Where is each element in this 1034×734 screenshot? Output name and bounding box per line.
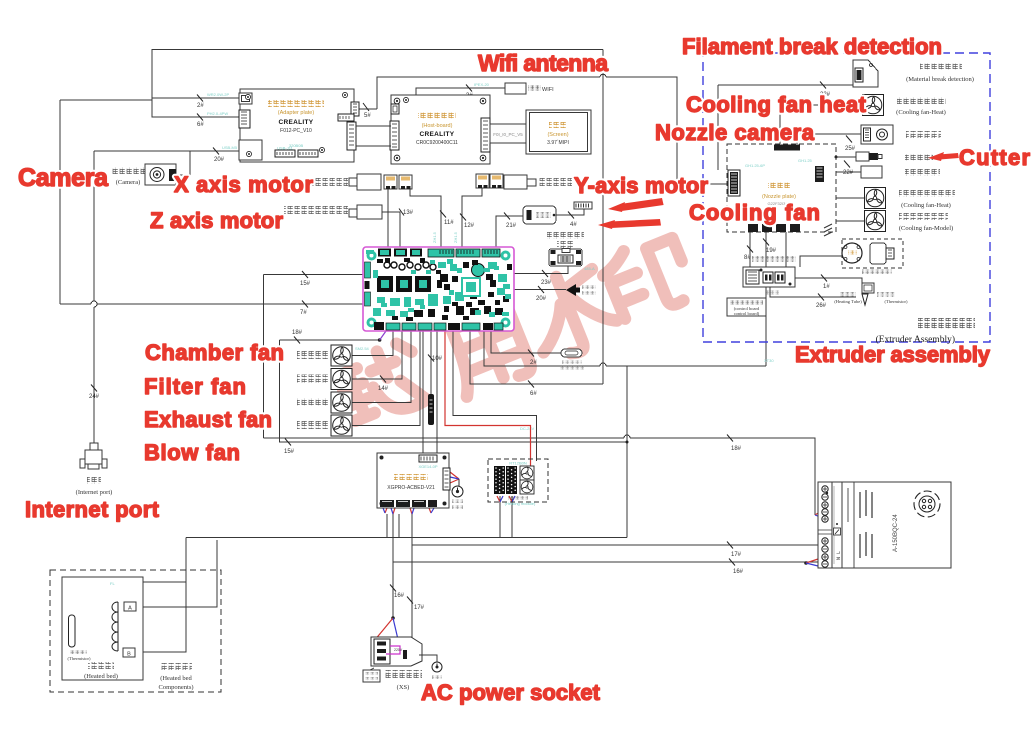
svg-text:ZH1.5: ZH1.5 (453, 231, 458, 243)
svg-text:USB-M5: USB-M5 (222, 145, 238, 150)
svg-text:GH1.25-6P: GH1.25-6P (745, 163, 765, 168)
svg-text:Blow fan: Blow fan (144, 440, 240, 465)
svg-text:X axis motor: X axis motor (174, 172, 313, 197)
svg-text:Z axis motor: Z axis motor (150, 208, 283, 233)
svg-text:A-150BQC-24: A-150BQC-24 (893, 514, 899, 552)
svg-text:Internet port: Internet port (25, 497, 160, 522)
svg-text:WR2.0W-2P: WR2.0W-2P (207, 92, 229, 97)
svg-text:(Thermistor): (Thermistor) (68, 656, 91, 661)
svg-text:Components): Components) (158, 684, 193, 691)
svg-text:22#: 22# (843, 170, 854, 176)
svg-text:N L: N L (836, 551, 842, 560)
svg-text:2#: 2# (530, 360, 537, 366)
svg-text:1#: 1# (823, 284, 830, 290)
svg-text:10#: 10# (432, 356, 443, 362)
svg-text:(XS): (XS) (397, 684, 410, 691)
svg-text:Y-axis motor: Y-axis motor (574, 173, 708, 198)
svg-text:CR0C9200400C11: CR0C9200400C11 (416, 140, 458, 146)
svg-text:control board): control board) (734, 311, 760, 316)
svg-text:(Host-board): (Host-board) (422, 123, 453, 129)
svg-text:(Cooling fan-Heat): (Cooling fan-Heat) (896, 109, 946, 116)
svg-text:18#: 18# (292, 330, 303, 336)
svg-text:AC power socket: AC power socket (421, 680, 601, 705)
svg-text:Cooling fan: Cooling fan (689, 200, 820, 225)
svg-text:Cutter: Cutter (959, 145, 1030, 170)
svg-text:15#: 15# (284, 449, 295, 455)
svg-text:(Cooling fan-Model): (Cooling fan-Model) (899, 225, 953, 232)
svg-text:WIFI: WIFI (542, 87, 554, 93)
svg-text:Exhaust fan: Exhaust fan (144, 407, 272, 432)
svg-text:(Heated bed: (Heated bed (160, 675, 192, 682)
svg-text:XGPRO-ACBED-V21: XGPRO-ACBED-V21 (387, 485, 435, 491)
svg-text:(Cooling fan-Heat): (Cooling fan-Heat) (901, 202, 951, 209)
svg-text:2#: 2# (197, 103, 204, 109)
svg-text:13#: 13# (403, 210, 414, 216)
svg-text:Wifi antenna: Wifi antenna (478, 50, 608, 76)
svg-text:B: B (127, 652, 131, 658)
svg-text:Cooling fan heat: Cooling fan heat (686, 92, 867, 117)
svg-text:GH1.25: GH1.25 (798, 158, 813, 163)
svg-text:14#: 14# (378, 386, 389, 392)
svg-text:PH2.0-4PW: PH2.0-4PW (207, 111, 228, 116)
svg-text:23#: 23# (541, 280, 552, 286)
svg-text:(Material break detection): (Material break detection) (906, 76, 974, 83)
svg-text:19#: 19# (766, 248, 777, 254)
svg-text:17#: 17# (731, 552, 742, 558)
svg-text:220V: 220V (394, 648, 403, 652)
svg-text:Camera: Camera (18, 164, 109, 192)
svg-text:Nozzle camera: Nozzle camera (655, 120, 815, 145)
svg-text:F012-PC_V10: F012-PC_V10 (280, 128, 312, 134)
svg-text:20#: 20# (536, 296, 547, 302)
svg-text:6#: 6# (197, 122, 204, 128)
svg-text:(Heated bed): (Heated bed) (84, 673, 118, 680)
svg-text:18#: 18# (731, 446, 742, 452)
svg-text:16#: 16# (394, 593, 405, 599)
svg-text:11#: 11# (444, 220, 454, 226)
svg-text:20#: 20# (214, 157, 225, 163)
svg-text:3.97´MIPI: 3.97´MIPI (547, 140, 569, 146)
svg-text:5#: 5# (364, 113, 371, 119)
svg-text:FL: FL (110, 581, 115, 586)
svg-text:IPEX-20: IPEX-20 (474, 82, 490, 87)
svg-text:4#: 4# (570, 222, 577, 228)
svg-text:(Thermistor): (Thermistor) (885, 299, 908, 304)
svg-text:Filter fan: Filter fan (144, 374, 246, 399)
svg-text:(Heating module): (Heating module) (505, 501, 536, 506)
svg-text:16#: 16# (733, 569, 744, 575)
svg-text:(Camera): (Camera) (116, 179, 141, 186)
svg-text:Filament break detection: Filament break detection (682, 34, 942, 59)
svg-text:SM2.54: SM2.54 (355, 346, 370, 351)
svg-text:6#: 6# (530, 391, 537, 397)
svg-text:XT30: XT30 (764, 358, 774, 363)
svg-text:15#: 15# (300, 281, 311, 287)
svg-text:12#: 12# (464, 223, 475, 229)
svg-text:(Heating Tube): (Heating Tube) (834, 299, 862, 304)
svg-text:ZH1.5: ZH1.5 (432, 231, 437, 243)
svg-text:(Adapter plate): (Adapter plate) (278, 110, 315, 116)
svg-text:7#: 7# (300, 310, 307, 316)
svg-text:USB-J11: USB-J11 (277, 146, 293, 151)
svg-text:A: A (128, 606, 132, 612)
svg-text:Extruder assembly: Extruder assembly (795, 342, 991, 367)
svg-text:485-A: 485-A (584, 266, 595, 271)
svg-text:8#: 8# (744, 255, 751, 261)
svg-text:DC-24V: DC-24V (520, 426, 535, 431)
svg-text:RT12B0N: RT12B0N (509, 461, 527, 466)
svg-text:24#: 24# (89, 394, 100, 400)
svg-text:(Internet port): (Internet port) (76, 489, 113, 496)
svg-text:F0I_I0_PC_V5: F0I_I0_PC_V5 (493, 132, 523, 137)
svg-text:Chamber fan: Chamber fan (145, 340, 284, 365)
svg-text:(Screen): (Screen) (547, 132, 568, 138)
svg-text:17#: 17# (414, 605, 425, 611)
svg-text:XGE14-0P: XGE14-0P (418, 464, 437, 469)
svg-text:21#: 21# (506, 223, 517, 229)
svg-text:CREALITY: CREALITY (420, 131, 455, 138)
svg-text:CREALITY: CREALITY (279, 119, 314, 126)
svg-text:26#: 26# (816, 303, 827, 309)
svg-text:25#: 25# (845, 146, 856, 152)
